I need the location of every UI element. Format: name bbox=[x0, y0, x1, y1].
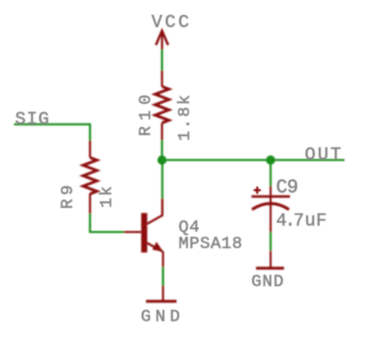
resistor R9 pin leads bbox=[89, 141, 91, 214]
svg-text:R10: R10 bbox=[137, 89, 156, 136]
svg-text:SIG: SIG bbox=[15, 110, 50, 130]
svg-text:GND: GND bbox=[251, 273, 284, 292]
resistor R10 pin leads bbox=[161, 71, 163, 141]
svg-text:1k: 1k bbox=[98, 185, 117, 208]
wire R10 to node A bbox=[161, 140, 163, 160]
resistor R10 bbox=[155, 87, 169, 123]
ground symbol right bbox=[256, 251, 284, 269]
ground symbol left bbox=[146, 286, 177, 302]
wire SIG vertical bbox=[89, 123, 91, 140]
capacitor C9 bbox=[252, 186, 291, 232]
transistor Q4 bbox=[124, 199, 163, 268]
wire VCC to R10 bbox=[161, 50, 163, 71]
svg-text:1.8k: 1.8k bbox=[176, 93, 195, 141]
svg-text:VCC: VCC bbox=[152, 13, 192, 33]
wire emitter to ground bbox=[162, 267, 164, 286]
svg-text:MPSA18: MPSA18 bbox=[179, 235, 243, 254]
wire R9 to base corner bbox=[90, 214, 124, 233]
wire node A to node B bbox=[162, 159, 271, 161]
wire C9 to ground bbox=[270, 232, 272, 251]
svg-text:C9: C9 bbox=[276, 177, 298, 199]
wire SIG horizontal bbox=[14, 123, 90, 125]
svg-text:OUT: OUT bbox=[305, 146, 343, 166]
wire node B to OUT bbox=[271, 159, 345, 161]
wire node B to C9 bbox=[270, 160, 272, 186]
svg-text:R9: R9 bbox=[59, 181, 78, 209]
wire collector to node A bbox=[161, 160, 163, 199]
plus sign of C9 bbox=[254, 187, 261, 194]
svg-text:GND: GND bbox=[141, 308, 185, 327]
svg-text:4.7uF: 4.7uF bbox=[276, 211, 327, 231]
junction node B bbox=[266, 155, 275, 164]
junction node A bbox=[157, 155, 166, 164]
power symbol VCC arrow bbox=[156, 31, 168, 50]
resistor R9 bbox=[83, 158, 97, 194]
